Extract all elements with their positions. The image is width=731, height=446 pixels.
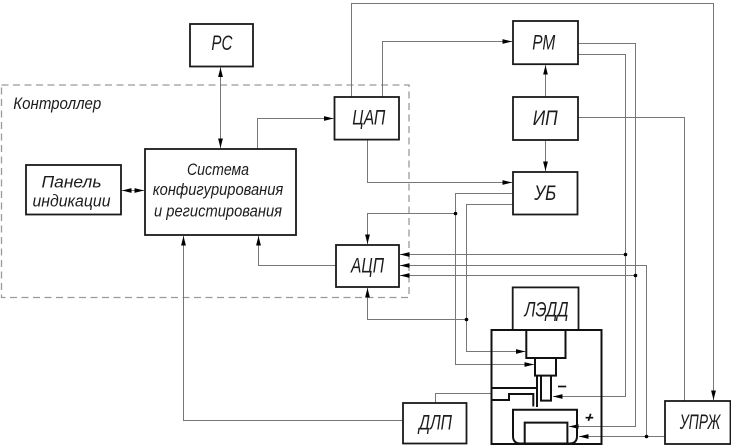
svg-text:и регистирования: и регистирования [154, 202, 282, 221]
wire УБ out1 to spindle step2 [456, 194, 535, 365]
workpiece [525, 423, 568, 444]
svg-text:УПРЖ: УПРЖ [679, 411, 721, 434]
junction dot [465, 318, 469, 322]
block ЛЭДД [513, 287, 579, 330]
svg-text:Панель: Панель [42, 173, 102, 192]
block ИП [513, 97, 578, 140]
block УПРЖ [665, 401, 731, 444]
block ЦАП [335, 97, 400, 140]
svg-text:индикации: индикации [33, 192, 111, 211]
label plus [586, 414, 594, 421]
svg-text:ЦАП: ЦАП [352, 107, 386, 130]
wire Система to ЦАП [258, 119, 334, 150]
svg-text:ЛЭДД: ЛЭДД [523, 299, 569, 322]
wire УПРЖ to bath [579, 436, 665, 438]
block РМ [513, 21, 578, 64]
svg-text:АЦП: АЦП [350, 254, 385, 277]
block УБ [513, 172, 578, 215]
spindle step2 [535, 358, 556, 376]
junction dot [454, 212, 458, 216]
block ДЛП [403, 403, 467, 444]
wire branch УБ out1 to АЦП top [368, 214, 456, 245]
svg-text:РС: РС [211, 32, 233, 55]
block Панель индикации [26, 165, 121, 215]
controller dashed box [2, 85, 410, 298]
svg-text:конфигурирования: конфигурирования [153, 180, 284, 199]
svg-text:ИП: ИП [533, 107, 559, 130]
fixture step outline [492, 394, 534, 407]
wire ДЛП to Система [184, 236, 404, 421]
wire РМ out1 to workpiece plus [569, 44, 636, 427]
block РС [190, 24, 253, 67]
wire branch РМ out1 to АЦП in3 [400, 275, 636, 277]
svg-text:Контроллер: Контроллер [13, 94, 101, 113]
wire РС to Система (bidirectional) [220, 68, 222, 149]
junction dot [634, 274, 638, 278]
junction dot [645, 435, 649, 439]
electrode rod [541, 376, 551, 401]
bath [513, 410, 577, 444]
wire Панель to Система (bidirectional) [122, 190, 144, 192]
block Система конфигурирования и регистирования [145, 149, 296, 235]
wire ИП to УБ [545, 140, 547, 171]
wire ДЛП to machine [436, 394, 492, 404]
wire УБ out2 to spindle step1 [467, 205, 526, 352]
wire top loop ЦАП to УПРЖ [352, 4, 714, 401]
svg-text:Система: Система [187, 160, 249, 179]
wire ИП to УПРЖ [578, 118, 685, 402]
wire ЦАП to УБ in1 [368, 140, 513, 183]
wire branch bath line to АЦП in2 [400, 266, 647, 437]
label minus [558, 386, 566, 388]
guide slot vertical [536, 376, 538, 407]
wire branch УБ out2 to АЦП bottom [368, 288, 467, 320]
wire ЦАП to РМ [383, 42, 513, 98]
wire РМ out2 to electrode minus [553, 55, 626, 397]
wire АЦП to Система [259, 236, 337, 266]
junction dot [624, 253, 628, 257]
spindle step1 [526, 330, 565, 358]
svg-text:УБ: УБ [533, 182, 556, 205]
wire ИП to РМ [545, 65, 547, 97]
svg-text:РМ: РМ [532, 32, 555, 55]
wire branch РМ out2 to АЦП in1 [400, 254, 626, 256]
svg-text:ДЛП: ДЛП [418, 412, 453, 435]
block АЦП [336, 245, 399, 287]
machine outer box [492, 330, 602, 444]
fixture upper ledge [492, 387, 538, 389]
